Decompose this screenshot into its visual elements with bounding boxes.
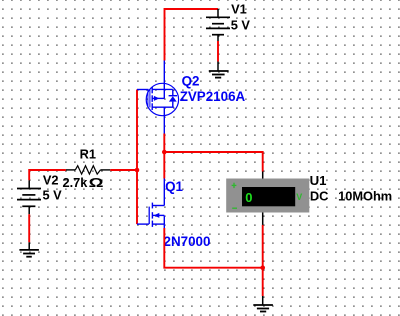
svg-text:V1: V1 bbox=[231, 2, 247, 17]
battery V1 bbox=[206, 9, 230, 41]
wire V2 plus to R1 bbox=[29, 170, 66, 180]
resistor R1 bbox=[66, 166, 110, 174]
svg-text:V: V bbox=[296, 192, 302, 202]
wire gate net: Q2 gate down to Q1 gate bbox=[136, 90, 138, 225]
svg-text:Q1: Q1 bbox=[165, 179, 183, 194]
svg-text:5 V: 5 V bbox=[43, 187, 63, 202]
battery V2 bbox=[17, 180, 41, 214]
meter plus mark bbox=[233, 183, 235, 188]
wire to meter plus bbox=[164, 152, 262, 172]
svg-text:2N7000: 2N7000 bbox=[164, 234, 211, 249]
svg-text:10MOhm: 10MOhm bbox=[338, 189, 392, 204]
ground (top, below V1) bbox=[209, 62, 229, 78]
svg-text:Q2: Q2 bbox=[182, 74, 200, 89]
node junction R1/gate wire bbox=[135, 168, 140, 173]
node bottom junction bbox=[260, 265, 265, 270]
svg-text:2.7k: 2.7k bbox=[63, 175, 89, 190]
wire Q1 source to bottom node bbox=[164, 228, 262, 268]
ground (left, below V2) bbox=[19, 242, 39, 256]
wire R1 to gate junction bbox=[110, 169, 137, 171]
svg-text:U1: U1 bbox=[310, 173, 327, 188]
transistor Q1 NMOS 2N7000 bbox=[137, 179, 164, 229]
svg-text:5 V: 5 V bbox=[231, 18, 251, 33]
wire V2 minus to ground bbox=[28, 214, 30, 242]
multimeter U1 bbox=[262, 172, 264, 179]
node junction meter tap bbox=[162, 150, 167, 155]
svg-text:0: 0 bbox=[245, 190, 252, 205]
wire V1 minus to ground bbox=[217, 41, 219, 62]
wire meter minus down to junction bbox=[262, 225, 264, 268]
wire top net: V1+ to Q2 drain bbox=[165, 9, 219, 61]
svg-text:Ω: Ω bbox=[89, 177, 104, 191]
svg-text:DC: DC bbox=[310, 189, 328, 204]
svg-text:V2: V2 bbox=[43, 173, 59, 188]
op area: transistor Q2 PMOS ZVP2106A bbox=[137, 61, 179, 134]
wire Q2 source to Q1 drain bbox=[163, 134, 165, 179]
ground (bottom) bbox=[253, 296, 273, 312]
wire junction to ground bbox=[262, 268, 264, 296]
svg-text:R1: R1 bbox=[80, 146, 96, 161]
meter minus mark bbox=[232, 207, 237, 209]
svg-text:ZVP2106A: ZVP2106A bbox=[180, 89, 246, 104]
